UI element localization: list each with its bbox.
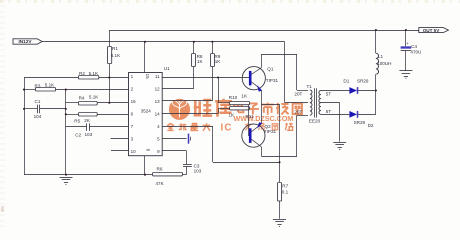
svg-text:R10: R10: [229, 95, 238, 100]
svg-text:SR29: SR29: [354, 120, 366, 125]
svg-text:5.1K: 5.1K: [89, 94, 99, 99]
svg-text:103: 103: [194, 168, 202, 173]
svg-text:SR29: SR29: [357, 78, 369, 83]
svg-text:5.1K: 5.1K: [45, 82, 55, 87]
svg-text:20T: 20T: [294, 91, 302, 96]
svg-text:12: 12: [155, 87, 161, 92]
svg-text:R5: R5: [74, 118, 80, 123]
svg-text:TIP31: TIP31: [264, 129, 277, 134]
svg-text:OUT 5V: OUT 5V: [423, 28, 441, 33]
svg-text:15: 15: [145, 74, 150, 80]
svg-text:R1: R1: [112, 46, 118, 51]
svg-text:L1: L1: [378, 54, 384, 59]
svg-text:14: 14: [155, 112, 161, 117]
svg-text:1K: 1K: [215, 59, 222, 64]
svg-text:D2: D2: [368, 123, 374, 128]
svg-text:C2: C2: [75, 132, 81, 137]
svg-text:R11: R11: [245, 114, 254, 119]
svg-text:R4: R4: [79, 95, 85, 100]
svg-text:100UH: 100UH: [377, 61, 391, 66]
svg-text:C1: C1: [35, 99, 41, 104]
svg-text:1K: 1K: [197, 59, 204, 64]
svg-text:R7: R7: [282, 184, 288, 189]
svg-text:5T: 5T: [326, 109, 332, 114]
svg-text:13: 13: [155, 99, 161, 104]
svg-text:104: 104: [34, 114, 42, 119]
svg-text:470U: 470U: [410, 50, 421, 55]
svg-text:IN12V: IN12V: [18, 39, 32, 44]
svg-text:1K: 1K: [229, 112, 236, 117]
svg-text:5.1K: 5.1K: [89, 71, 99, 76]
svg-text:1K: 1K: [241, 94, 248, 99]
svg-text:5.1K: 5.1K: [111, 53, 121, 58]
svg-text:WWW.DZSC.COM: WWW.DZSC.COM: [234, 114, 294, 123]
svg-text:0.1: 0.1: [282, 190, 289, 195]
svg-text:+: +: [406, 41, 409, 46]
svg-text:R3: R3: [35, 83, 41, 88]
svg-text:3524: 3524: [141, 109, 152, 114]
svg-text:16: 16: [131, 99, 137, 104]
svg-text:2K: 2K: [84, 118, 91, 123]
svg-text:47K: 47K: [156, 181, 165, 186]
svg-text:TIP31: TIP31: [266, 78, 279, 83]
svg-text:20T: 20T: [294, 110, 302, 115]
svg-text:11: 11: [155, 74, 160, 79]
svg-text:IC: IC: [221, 122, 233, 133]
svg-text:103: 103: [85, 132, 93, 137]
svg-text:R6: R6: [157, 167, 163, 172]
svg-text:D1: D1: [343, 78, 349, 83]
svg-text:EE20: EE20: [309, 119, 321, 124]
svg-text:Q1: Q1: [267, 67, 274, 72]
svg-text:R2: R2: [79, 71, 85, 76]
svg-text:5T: 5T: [326, 92, 332, 97]
svg-text:U1: U1: [164, 66, 170, 71]
svg-text:T1: T1: [307, 84, 313, 89]
svg-text:10: 10: [131, 149, 137, 154]
svg-text:C4: C4: [411, 44, 417, 49]
